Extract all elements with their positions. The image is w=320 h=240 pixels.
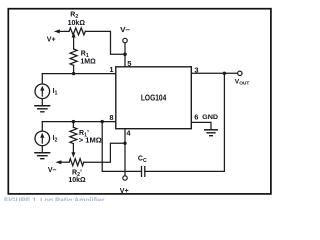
arrow V+ (top left lead): [54, 29, 60, 33]
node Vout junction dot: [223, 72, 226, 75]
wire junction down to pin 5: [124, 54, 126, 67]
wire pin 3 to Vout terminal: [191, 72, 237, 74]
arrow wiper R2 (points up): [72, 32, 76, 37]
svg-text:10kΩ: 10kΩ: [68, 177, 86, 184]
svg-text:6: 6: [194, 113, 198, 122]
ground (pin 6): [204, 130, 218, 136]
wire R2' right lead up to pin4 node: [84, 143, 125, 162]
resistor R1 zigzag: [70, 49, 77, 65]
arrow wiper R1' (points down): [71, 152, 75, 157]
wire CC branch from node B down and right: [102, 122, 141, 172]
node junction dot (V-/pin5): [123, 53, 127, 57]
wire R2 left lead to V+ arrow: [58, 30, 70, 32]
svg-text:> 1MΩ: > 1MΩ: [79, 138, 102, 145]
terminal V- (top): [123, 38, 127, 42]
resistor R2' zigzag: [69, 159, 84, 166]
wire I1 bottom to ground: [41, 99, 43, 106]
current source I1: [35, 84, 50, 99]
wire I2 bottom to ground: [41, 146, 43, 153]
wire R2' left lead to V- arrow: [59, 161, 69, 163]
wire pin 4 down to V+ terminal: [124, 129, 126, 176]
node pin4 junction dot: [123, 142, 126, 145]
svg-text:GND: GND: [202, 114, 218, 121]
wire Vout branch down: [145, 73, 225, 171]
wire node B horizontal to pin 8: [42, 121, 116, 123]
wire I1 top: [41, 74, 43, 84]
svg-text:LOG104: LOG104: [141, 94, 167, 103]
svg-text:V–: V–: [48, 167, 57, 174]
node B junction dot (R1' top): [72, 120, 75, 123]
svg-text:1MΩ: 1MΩ: [80, 58, 96, 65]
capacitor CC: [142, 166, 145, 177]
ground (I2): [34, 153, 50, 159]
svg-text:V+: V+: [47, 36, 56, 43]
wire R1 bottom to node A: [73, 65, 75, 73]
svg-text:10kΩ: 10kΩ: [68, 20, 86, 27]
wire R2 right lead down to V- node: [85, 31, 125, 54]
ground (I1): [34, 106, 50, 112]
wire I2 top: [41, 122, 43, 132]
wire R2 wiper stem: [73, 37, 75, 50]
wire node A horizontal to pin 1: [42, 73, 116, 75]
op-amp U1 LOG104 box: [116, 67, 192, 129]
wire V- terminal to junction: [124, 43, 126, 55]
wire R1' wiper stem down: [72, 144, 74, 153]
svg-text:5: 5: [127, 59, 131, 68]
resistor R1' zigzag: [70, 127, 77, 143]
current source I2: [35, 131, 50, 146]
arrow V- (bottom left lead): [55, 160, 61, 164]
terminal V+ (bottom): [123, 176, 127, 180]
wire pin 6 to ground: [191, 122, 211, 129]
svg-text:1: 1: [109, 65, 113, 74]
svg-text:3: 3: [194, 65, 198, 74]
wire R1' top: [72, 122, 74, 128]
resistor R2 zigzag: [69, 28, 85, 35]
svg-text:V+: V+: [120, 188, 129, 195]
node CC branch junction dot: [101, 120, 104, 123]
svg-text:FIGURE 1. Log Ratio Amplifier.: FIGURE 1. Log Ratio Amplifier.: [4, 198, 106, 201]
svg-text:V–: V–: [120, 27, 130, 34]
terminal Vout: [238, 71, 242, 75]
node A junction dot: [72, 72, 75, 75]
svg-text:8: 8: [109, 113, 113, 122]
